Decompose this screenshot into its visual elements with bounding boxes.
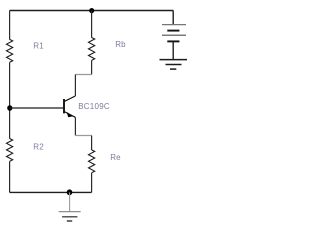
ground right [160,60,188,70]
transistor Q1 BC109C [64,96,75,117]
wire emitter lead [74,117,76,135]
ground bottom [59,192,81,221]
svg-text:R2: R2 [33,143,44,152]
wire bottom rail [10,191,92,193]
svg-text:BC109C: BC109C [78,102,110,111]
svg-text:R1: R1 [33,42,44,51]
node base junction [7,105,12,111]
wire left branch top [9,11,11,40]
wire Rb to elbow [91,61,93,75]
resistor Rb [89,38,95,61]
node ground junction [67,189,73,195]
wire collector lead [74,75,76,97]
wire left branch middle [9,62,11,138]
battery V1 [162,25,186,42]
svg-text:Rb: Rb [115,40,126,49]
resistor Re [89,150,95,173]
wire elbow to Re [91,136,93,151]
resistor R2 [7,139,13,162]
wire Re to bottom rail [91,173,93,192]
wire battery to ground [172,41,174,59]
svg-text:Re: Re [110,153,121,162]
wire left branch bottom [9,162,11,193]
wire top rail Vcc [10,10,174,12]
resistor R1 [7,39,13,62]
node Vcc junction [89,8,94,13]
wire emitter elbow [75,135,91,137]
wire base lead [10,107,64,109]
wire collector elbow [75,74,91,76]
wire Rb branch top [91,11,93,38]
wire battery drop [172,11,174,25]
